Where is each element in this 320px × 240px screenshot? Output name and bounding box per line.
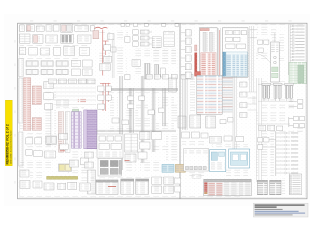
svg-text:RENR8958-02 VOL 2 of 2: RENR8958-02 VOL 2 of 2 — [6, 124, 10, 164]
svg-text:320D & 320D L Excavators Elect: 320D & 320D L Excavators Electrical Syst… — [10, 130, 13, 164]
